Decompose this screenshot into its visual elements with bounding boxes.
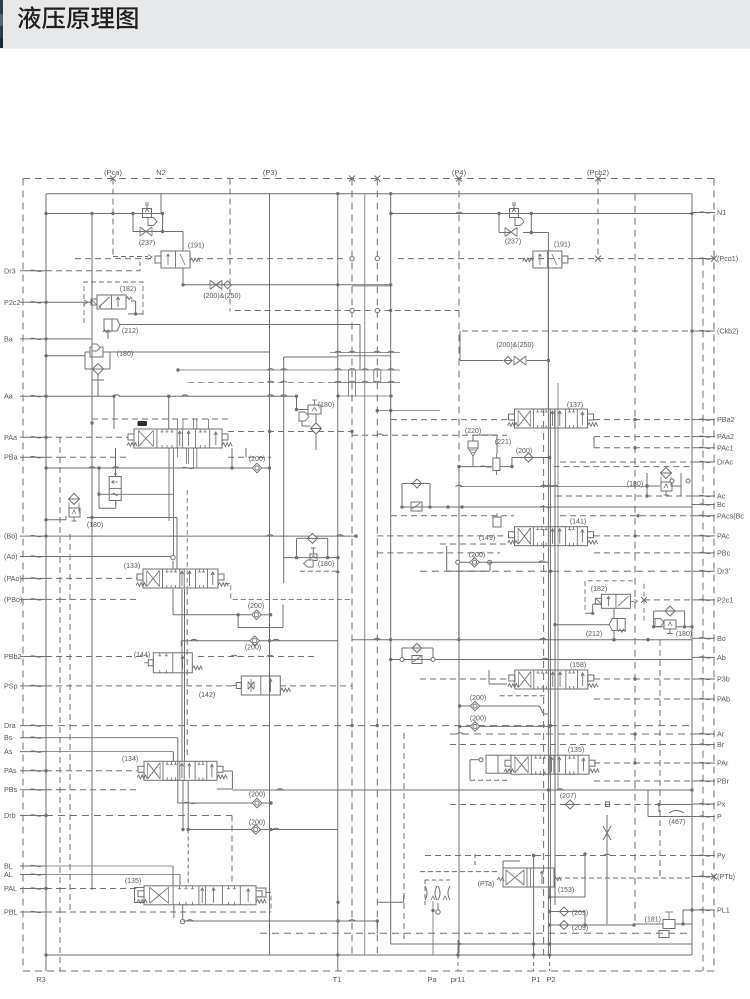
pressure valve (180) Bo row	[69, 494, 81, 522]
svg-text:(PTa): (PTa)	[478, 881, 495, 888]
solenoid valve (182) right	[595, 594, 637, 608]
outer dashed border bottom	[23, 970, 714, 972]
svg-text:(144): (144)	[134, 652, 150, 659]
outer dashed border top	[23, 178, 714, 180]
label (200) 141 row	[469, 552, 485, 559]
svg-text:(212): (212)	[122, 328, 138, 335]
label (237) right	[505, 239, 521, 246]
svg-text:Ab: Ab	[717, 653, 726, 662]
wire PAa2 west	[352, 434, 507, 435]
orifice x=607	[603, 826, 611, 840]
wire N2 vertical	[160, 194, 162, 214]
label (137)	[567, 402, 583, 409]
wire 200 158 r2	[458, 725, 551, 728]
svg-text:(Pcb2): (Pcb2)	[587, 168, 610, 177]
right rail x=558	[557, 383, 559, 790]
open circle 377,259	[375, 256, 379, 260]
bottom label T1	[333, 975, 342, 984]
svg-text:Br: Br	[717, 740, 725, 749]
wire 180 DrAc	[645, 473, 690, 496]
rail x=230 dashed	[229, 179, 231, 312]
svg-text:(182): (182)	[120, 286, 136, 293]
svg-text:Ar: Ar	[717, 730, 725, 739]
svg-text:Py: Py	[717, 851, 726, 860]
wire y=803	[178, 801, 273, 804]
svg-text:PAc: PAc	[717, 531, 730, 540]
port line (PAo)	[46, 577, 137, 579]
port line Drb	[44, 814, 232, 885]
inner frame left	[45, 194, 47, 955]
port line Bs	[46, 737, 178, 739]
port PBb2	[4, 652, 46, 661]
wire pilot box top	[425, 854, 560, 857]
port Br	[692, 740, 725, 749]
wire y=284.8	[181, 283, 392, 286]
wire 212R down	[612, 608, 615, 641]
cross rail y=410	[376, 409, 440, 412]
valve (149) box	[493, 513, 501, 527]
port Ab	[692, 653, 726, 662]
hop texture 1	[176, 368, 400, 371]
cross rail y=396	[336, 394, 392, 397]
svg-text:(200): (200)	[470, 695, 486, 702]
check (200) 158 row1	[470, 701, 480, 711]
svg-text:(153): (153)	[558, 887, 574, 894]
svg-text:Dr3: Dr3	[4, 266, 16, 275]
port BL	[4, 862, 46, 871]
valve (221)	[493, 454, 500, 475]
wire 153 top pilots	[475, 854, 520, 868]
svg-text:(237): (237)	[139, 240, 155, 247]
extra section (135R)	[479, 755, 511, 773]
port Aa	[4, 392, 46, 401]
port line P3b	[594, 677, 692, 680]
center rail x=352 dashed	[349, 176, 355, 956]
port Ba	[4, 334, 46, 343]
svg-text:PBa2: PBa2	[717, 415, 735, 424]
label (220)	[465, 428, 481, 435]
cross rail right y=486.6	[456, 485, 648, 486]
svg-text:(Bo): (Bo)	[4, 532, 18, 541]
label (200) 221 row	[516, 448, 532, 455]
svg-text:Aa: Aa	[4, 392, 13, 401]
port P2c2	[4, 298, 46, 307]
label (200)&(250) left	[203, 293, 240, 300]
port (PTb)	[692, 872, 735, 881]
port line PBa2	[391, 418, 692, 421]
svg-text:(181): (181)	[645, 917, 661, 924]
svg-text:PAs: PAs	[4, 766, 17, 775]
wire 200 642	[181, 639, 337, 646]
wire 142 right	[280, 685, 352, 687]
port (PBo)	[4, 595, 46, 604]
main valve (134)	[137, 761, 227, 780]
port P	[692, 812, 722, 821]
wire y=902.3	[336, 895, 403, 904]
right rail x=607	[606, 815, 608, 924]
port line AL	[46, 866, 180, 885]
svg-text:(180): (180)	[318, 402, 334, 409]
label (158)	[570, 662, 586, 669]
svg-text:(PBo): (PBo)	[4, 595, 22, 604]
svg-text:N2: N2	[156, 168, 166, 177]
check valve bypass Bc	[402, 479, 430, 511]
port line PAa2	[594, 436, 692, 438]
throttle (200)&(250) right	[504, 356, 526, 365]
port PAcs(Bc	[692, 511, 744, 520]
port line Ac	[556, 494, 692, 497]
svg-text:(133): (133)	[124, 563, 140, 570]
outer dashed border left	[22, 179, 24, 972]
svg-text:Dra: Dra	[4, 721, 16, 730]
label (149)	[479, 535, 495, 542]
port line PBa	[46, 456, 128, 458]
wire 153 tail	[548, 852, 587, 898]
wire y=944	[391, 942, 692, 945]
port As	[4, 747, 46, 756]
throttle X (237) left	[140, 227, 152, 236]
svg-text:P1: P1	[531, 975, 540, 984]
check (200) 141 row	[470, 558, 480, 568]
port line PAL	[44, 887, 138, 890]
port line PAcs	[391, 514, 692, 517]
svg-text:(P3): (P3)	[263, 168, 278, 177]
label (153)	[558, 887, 574, 894]
svg-text:Bs: Bs	[4, 733, 13, 742]
right rail x=543 dashed	[543, 409, 545, 955]
port line Dr3'	[420, 570, 692, 573]
svg-text:PAa: PAa	[4, 433, 17, 442]
svg-text:(137): (137)	[567, 402, 583, 409]
port line Dra	[46, 724, 692, 727]
valve A/B drops	[169, 448, 188, 588]
left rail x=60 dashed	[59, 437, 61, 971]
wire 200 250 right	[460, 331, 550, 362]
right rail x=548	[547, 233, 549, 956]
pilot valve (191) right	[523, 251, 568, 268]
main valve (135) right	[504, 755, 599, 774]
wire y=614.8	[173, 613, 272, 616]
dashed rail Dr3 y=270.8	[46, 262, 140, 271]
svg-text:PAa2: PAa2	[717, 432, 734, 441]
wire 209 loops	[548, 910, 636, 927]
wire 182R west	[585, 604, 601, 615]
svg-text:(220): (220)	[465, 428, 481, 435]
svg-text:(200): (200)	[469, 552, 485, 559]
check (200) 221 row	[524, 453, 533, 462]
label (181) bottom	[645, 917, 661, 924]
port line PAa	[44, 436, 128, 439]
bottom label pr11	[451, 975, 465, 984]
valve (153)	[497, 868, 561, 887]
port Py	[692, 851, 726, 860]
port line PAc	[377, 534, 692, 537]
right rail x=550	[549, 409, 551, 953]
check (200) 133 row	[252, 610, 262, 620]
wire Ckb2	[462, 329, 694, 332]
dash y=878 right of 153	[557, 877, 692, 879]
center rail x=377 dashed	[374, 176, 380, 956]
label (200) 158 row2	[470, 716, 486, 723]
top label (P4)	[452, 168, 467, 182]
wire 180 mid drop	[295, 396, 316, 450]
wire 200 133 loop	[236, 605, 283, 628]
pilot rail y=259 right	[568, 256, 692, 262]
right rail x=555	[554, 409, 556, 905]
svg-text:(200): (200)	[249, 456, 265, 463]
wire y=921	[183, 919, 379, 933]
port line Ab	[389, 658, 692, 661]
svg-text:(Ao): (Ao)	[4, 552, 18, 561]
svg-text:As: As	[4, 747, 13, 756]
port line P wire	[648, 816, 692, 818]
port line PBb2	[46, 655, 317, 656]
wire Ba row	[44, 337, 92, 340]
port line Ar	[450, 732, 692, 735]
svg-text:PBa: PBa	[4, 453, 18, 462]
label (182) right	[591, 586, 607, 593]
port line (Bo)	[44, 534, 357, 537]
wire left mid y=432 link	[90, 421, 93, 432]
center rail x=338	[337, 194, 339, 955]
top label (Pca)	[104, 168, 122, 182]
right rail x=660 dashed	[659, 640, 661, 880]
svg-text:(134): (134)	[122, 756, 138, 763]
port PBr	[692, 777, 730, 786]
dashed L 135L right	[266, 893, 271, 913]
label (144)	[134, 652, 150, 659]
port (PAo)	[4, 574, 46, 583]
port line PBc	[377, 552, 692, 554]
label (180) P2c1 row	[676, 631, 692, 638]
svg-text:AL: AL	[4, 870, 13, 879]
svg-text:Drb: Drb	[4, 811, 16, 820]
wire 158 west	[420, 678, 507, 680]
label (212) right	[586, 631, 602, 638]
wire 220 loop	[457, 435, 692, 468]
label (467)	[669, 819, 685, 826]
check (200) PAa row	[252, 463, 262, 473]
port PAa2	[692, 432, 734, 441]
small valve (142)	[232, 676, 290, 695]
right rail x=533	[533, 854, 535, 955]
bottom label R3	[36, 975, 46, 984]
pilot relief (180) mid	[299, 400, 322, 434]
shuttle valve (212) left	[103, 319, 120, 333]
throttle (200)&(250) left	[210, 280, 232, 289]
label (200) 158 row1	[470, 695, 486, 702]
svg-text:PAc1: PAc1	[717, 443, 734, 452]
wire N1 y=214	[389, 212, 693, 215]
svg-text:(200): (200)	[249, 792, 265, 799]
open circle 352,259	[350, 256, 354, 260]
port (Ckb2)	[692, 327, 739, 336]
port line PBs	[46, 789, 140, 791]
svg-text:P2: P2	[546, 975, 555, 984]
rail x=460 (P4) dashed	[457, 179, 460, 954]
svg-text:Pa: Pa	[427, 975, 437, 984]
port Drb	[4, 811, 46, 820]
wire 180 P2c1	[652, 611, 694, 629]
port line PBr	[594, 780, 692, 782]
svg-text:PAb: PAb	[717, 695, 730, 704]
port DrAc	[692, 458, 733, 467]
svg-text:PL1: PL1	[717, 906, 730, 915]
svg-text:(PAo): (PAo)	[4, 574, 22, 583]
label (200) 642 row	[245, 645, 261, 652]
wire Aa row	[44, 395, 298, 398]
port Ar	[692, 730, 725, 739]
label (134)	[122, 756, 138, 763]
wire PBa corner	[245, 448, 247, 457]
wire 207 down	[658, 805, 660, 813]
label (221)	[495, 439, 511, 446]
port (Bo)	[4, 532, 46, 541]
hop texture 2	[188, 381, 400, 382]
port PAc	[692, 531, 730, 540]
port line PAb	[594, 698, 692, 700]
port line BL	[46, 865, 173, 867]
title text 液压原理图 (as paths)	[18, 6, 138, 29]
dashed box (182) right	[585, 581, 644, 621]
port PSp	[4, 681, 46, 690]
svg-text:PBs: PBs	[4, 785, 18, 794]
svg-text:(180): (180)	[627, 481, 643, 488]
label (142)	[199, 692, 215, 699]
wire Aa to valve	[114, 396, 169, 429]
port line Br	[450, 744, 692, 746]
port Bs	[4, 733, 46, 742]
relief valve (237) right	[510, 203, 525, 226]
port line Py wire	[560, 854, 692, 855]
label (209) b	[572, 925, 588, 932]
port AL	[4, 870, 46, 879]
label (200) PAa row	[249, 456, 265, 463]
pressure valve (180) P2c1 row	[655, 606, 676, 634]
wire Ba comp feed	[44, 354, 85, 357]
check (209) a	[560, 907, 569, 916]
svg-text:PAcs(Bc: PAcs(Bc	[717, 511, 744, 520]
curve (467)	[669, 811, 684, 814]
pressure valve (180) DrAc	[661, 468, 673, 496]
main valve (141)	[508, 527, 598, 546]
right rail x=703 dashed	[702, 259, 704, 971]
port PAc1	[692, 443, 734, 452]
port PL1	[692, 906, 730, 915]
check (209) b	[560, 921, 569, 930]
wire 200 133 east	[262, 614, 270, 616]
bottom label P2	[546, 975, 555, 984]
svg-text:(200): (200)	[248, 603, 264, 610]
wire 191R right rail	[547, 268, 549, 409]
wire x=283.7 pilot chain	[110, 352, 338, 583]
port P2c1	[692, 595, 733, 604]
port Bo	[692, 634, 726, 643]
wire DrAc row	[560, 461, 692, 463]
port line Bc	[400, 505, 692, 508]
svg-text:(180): (180)	[318, 561, 334, 568]
solenoid valve (182) left	[91, 295, 132, 309]
dashed box (182) left	[84, 282, 143, 323]
check (207)	[566, 800, 575, 809]
port PAa	[4, 433, 46, 442]
svg-text:(191): (191)	[554, 242, 570, 249]
label (200) As row	[249, 792, 265, 799]
wire P1 P2 bottom	[456, 940, 551, 957]
center rail x=365	[364, 194, 366, 955]
wire PBa east	[228, 456, 271, 458]
wire 141 west	[440, 543, 507, 545]
svg-text:(200): (200)	[516, 448, 532, 455]
port Dra	[4, 721, 46, 730]
port line PAs	[44, 769, 137, 772]
svg-text:(141): (141)	[570, 519, 586, 526]
svg-text:(142): (142)	[199, 692, 215, 699]
inner frame right	[691, 194, 693, 955]
port Bc	[692, 500, 726, 509]
port PAL	[4, 884, 46, 893]
sub valve below 146	[109, 473, 121, 504]
svg-text:P: P	[717, 812, 722, 821]
svg-text:(P4): (P4)	[452, 168, 467, 177]
svg-text:P2c2: P2c2	[4, 298, 20, 307]
filter (220)	[468, 441, 478, 456]
title bar left image strip	[0, 0, 3, 48]
label (207)	[560, 793, 576, 800]
svg-text:(158): (158)	[570, 662, 586, 669]
outer dashed border right	[713, 179, 715, 972]
wire 135R loop	[470, 760, 510, 781]
label (180) Bo row	[87, 522, 103, 529]
label (212) left	[122, 328, 138, 335]
pilot valve (191) left	[155, 251, 200, 268]
label (200) 133 row	[248, 603, 264, 610]
label dark (146)	[138, 421, 148, 426]
port line (PBo) dashed	[46, 598, 138, 600]
wire x=183 through valve	[182, 268, 184, 285]
left rail x=70 dashed	[69, 534, 71, 912]
label (180) Ao chain	[318, 561, 334, 568]
port line PAr	[594, 761, 692, 764]
port PBc	[692, 548, 731, 557]
wire y=933 dashed	[260, 932, 692, 934]
label (200)&(250) right	[496, 342, 533, 349]
dash y=871.6 left of 153	[420, 871, 497, 873]
port Ac	[692, 492, 726, 501]
port Dr3	[4, 266, 46, 275]
cross rail y=353	[330, 351, 400, 352]
bottom label P1	[531, 975, 540, 984]
svg-text:PBr: PBr	[717, 777, 730, 786]
svg-text:(200): (200)	[470, 716, 486, 723]
svg-text:P2c1: P2c1	[717, 595, 733, 604]
wire 134 right loop	[217, 771, 233, 789]
rail x=404 dashed	[403, 733, 405, 940]
port P3b	[692, 675, 730, 684]
svg-text:(200): (200)	[249, 820, 265, 827]
wire 200 as2	[181, 828, 337, 831]
bottom label Pa	[427, 975, 437, 984]
inner frame top	[46, 192, 692, 195]
main valve (137)	[508, 409, 598, 428]
ladder legs	[349, 370, 381, 396]
cross rail y=286 ticks	[352, 285, 391, 287]
wire 200 PAa row	[232, 448, 271, 470]
wire sub valve	[97, 448, 173, 508]
port PBa2	[692, 415, 735, 424]
check (200) 642 row	[250, 636, 260, 646]
label (180) mid	[318, 402, 334, 409]
